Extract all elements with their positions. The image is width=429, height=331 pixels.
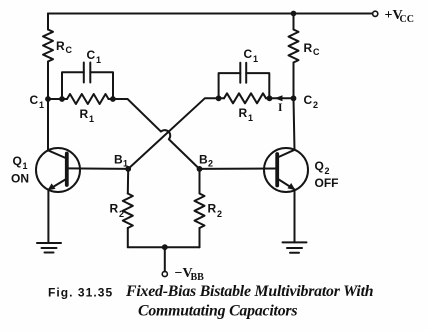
svg-text:1: 1 — [253, 54, 258, 64]
svg-text:R: R — [110, 202, 119, 216]
svg-text:Commutating Capacitors: Commutating Capacitors — [138, 303, 297, 320]
svg-text:Fixed-Bias Bistable Multivibra: Fixed-Bias Bistable Multivibrator With — [125, 283, 373, 300]
svg-text:2: 2 — [313, 100, 318, 110]
svg-text:2: 2 — [217, 209, 222, 219]
svg-text:C: C — [244, 47, 253, 61]
svg-text:Q: Q — [315, 159, 324, 173]
svg-text:2: 2 — [119, 209, 124, 219]
svg-text:BB: BB — [191, 272, 205, 283]
svg-text:1: 1 — [248, 113, 253, 123]
svg-text:CC: CC — [400, 14, 414, 25]
svg-text:R: R — [56, 39, 65, 53]
svg-text:R: R — [80, 107, 89, 121]
svg-text:R: R — [304, 41, 313, 55]
svg-text:C: C — [313, 47, 320, 57]
svg-text:ON: ON — [11, 172, 29, 186]
svg-text:2: 2 — [208, 159, 213, 169]
svg-text:C: C — [304, 93, 313, 107]
svg-text:1: 1 — [89, 114, 94, 124]
svg-text:Fig. 31.35: Fig. 31.35 — [48, 286, 113, 300]
svg-text:C: C — [87, 48, 96, 62]
svg-text:1: 1 — [123, 159, 128, 169]
svg-text:I: I — [278, 102, 283, 114]
svg-text:B: B — [114, 153, 123, 167]
svg-text:C: C — [66, 45, 73, 55]
svg-text:B: B — [199, 153, 208, 167]
svg-text:2: 2 — [325, 166, 330, 176]
svg-text:1: 1 — [39, 100, 44, 110]
svg-text:1: 1 — [96, 55, 101, 65]
svg-text:R: R — [208, 202, 217, 216]
svg-text:Q: Q — [13, 154, 22, 168]
svg-text:1: 1 — [23, 161, 28, 171]
svg-text:C: C — [30, 93, 39, 107]
svg-text:R: R — [239, 106, 248, 120]
svg-text:OFF: OFF — [315, 176, 339, 190]
